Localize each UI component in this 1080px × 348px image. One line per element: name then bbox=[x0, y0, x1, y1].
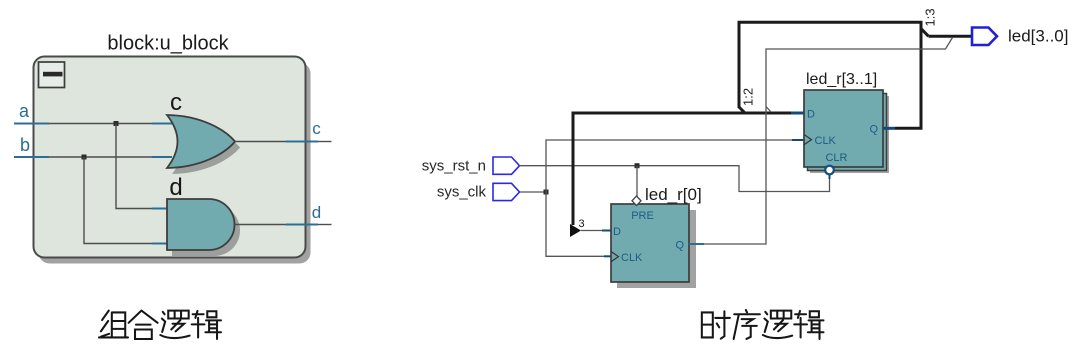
flipflop led_r[3..1] body bbox=[804, 90, 883, 167]
bus horizontal top bbox=[738, 21, 923, 24]
wire d external bbox=[318, 224, 332, 226]
led_r[3..1] D stub bbox=[791, 112, 804, 115]
wire d output bbox=[235, 224, 287, 226]
and-gate d input stub bottom bbox=[152, 243, 168, 245]
char 组 bbox=[99, 311, 128, 338]
wire sys_clk down to led_r[0] CLK bbox=[546, 192, 604, 256]
wire a to and-gate (vertical) bbox=[116, 124, 152, 209]
wire sys_rst_n to PRE bbox=[636, 166, 638, 197]
bus to led port bbox=[929, 35, 973, 38]
CLR stub bbox=[829, 174, 831, 179]
flipflop led_r[3..1] stack bbox=[808, 94, 887, 171]
svg-text:a: a bbox=[19, 101, 30, 121]
svg-text:sys_clk: sys_clk bbox=[437, 184, 487, 201]
svg-text:D: D bbox=[613, 226, 621, 238]
bus vertical x=739 bbox=[738, 22, 741, 108]
port sys_rst_n symbol bbox=[493, 157, 520, 174]
port led[3..0] symbol bbox=[972, 28, 997, 46]
led_r[3..1] Q stub bbox=[883, 127, 895, 130]
led_r[0] CLK stub bbox=[604, 255, 611, 257]
bus vertical x=921 bbox=[920, 22, 923, 128]
svg-text:D: D bbox=[807, 109, 815, 121]
svg-text:Q: Q bbox=[675, 240, 684, 252]
bus tap triangle bbox=[570, 224, 581, 237]
ripper tick Q to bus bbox=[766, 107, 771, 113]
svg-text:1:2: 1:2 bbox=[741, 88, 756, 106]
wire sys_clk bbox=[520, 191, 547, 193]
led_r[0] D stub bbox=[602, 230, 611, 232]
char 序 bbox=[734, 310, 760, 339]
svg-text:c: c bbox=[170, 89, 182, 116]
flipflop led_r[0] body bbox=[611, 204, 689, 282]
flipflop led_r[3..1] shadow bbox=[810, 96, 889, 173]
hierarchy icon bbox=[39, 62, 65, 88]
wire sys_rst_n bbox=[520, 166, 830, 192]
PRE diamond bbox=[632, 196, 641, 206]
wire b bbox=[49, 156, 152, 158]
and-gate d input stub top bbox=[152, 208, 168, 210]
svg-text:d: d bbox=[312, 203, 321, 222]
flipflop led_r[0] shadow bbox=[617, 210, 696, 288]
svg-text:1:3: 1:3 bbox=[923, 8, 938, 26]
svg-text:block:u_block: block:u_block bbox=[107, 33, 229, 55]
svg-text:led_r[0]: led_r[0] bbox=[645, 185, 702, 204]
wire b to and-gate (vertical) bbox=[84, 157, 152, 244]
junction sys_clk bbox=[544, 190, 549, 195]
wire c external bbox=[318, 141, 332, 143]
port c stub bbox=[286, 141, 318, 143]
or-gate c bbox=[167, 115, 235, 168]
char 合 bbox=[129, 311, 158, 339]
port sys_clk symbol bbox=[493, 183, 520, 200]
junction on wire b bbox=[82, 155, 87, 160]
svg-text:sys_rst_n: sys_rst_n bbox=[422, 158, 486, 175]
svg-text:d: d bbox=[169, 174, 182, 201]
char 辑 (2) bbox=[794, 311, 823, 339]
svg-text:CLR: CLR bbox=[825, 152, 847, 164]
char 时 bbox=[702, 311, 730, 338]
caption 时序逻辑 bbox=[702, 310, 824, 339]
port b stub bbox=[14, 156, 49, 158]
wire sys_clk up to led_r[3..1] CLK bbox=[546, 140, 792, 192]
block u_block body bbox=[34, 57, 306, 258]
CLR bubble bbox=[825, 166, 834, 175]
svg-text:c: c bbox=[312, 119, 321, 138]
wire c output bbox=[235, 141, 286, 143]
ripper 1:3 diagonal bbox=[921, 29, 929, 37]
svg-text:3: 3 bbox=[579, 218, 585, 230]
port d stub bbox=[286, 224, 318, 226]
led_r[3..1] CLK stub bbox=[792, 139, 804, 141]
and-gate d bbox=[167, 199, 235, 250]
char 逻 bbox=[160, 311, 189, 338]
svg-text:Q: Q bbox=[869, 124, 878, 136]
bus vertical to led_r[0] D bbox=[572, 113, 575, 225]
block u_block shadow bbox=[39, 63, 311, 264]
svg-text:CLK: CLK bbox=[621, 252, 643, 264]
char 逻 (2) bbox=[763, 311, 792, 338]
or-gate c shadow bbox=[172, 121, 240, 174]
svg-text:led_r[3..1]: led_r[3..1] bbox=[806, 71, 877, 88]
and-gate d shadow bbox=[172, 205, 240, 256]
svg-text:CLK: CLK bbox=[815, 135, 837, 147]
or-gate c input stub a bbox=[152, 123, 172, 125]
bus Q to corner bbox=[895, 127, 923, 130]
port a stub bbox=[14, 123, 49, 125]
clock triangle led_r[3..1] bbox=[804, 135, 812, 145]
wire a bbox=[49, 123, 152, 125]
or-gate c input stub b bbox=[152, 156, 172, 158]
wire led_r[0] Q bbox=[704, 38, 953, 245]
bus horizontal into led_r[3..1] D bbox=[572, 112, 792, 115]
svg-text:led[3..0]: led[3..0] bbox=[1008, 27, 1069, 46]
ripper 1:2 diagonal bbox=[739, 107, 746, 114]
svg-text:b: b bbox=[20, 135, 30, 155]
led_r[0] Q stub bbox=[689, 243, 704, 245]
wire triangle to D bbox=[581, 230, 602, 232]
char 辑 bbox=[192, 311, 221, 339]
junction sys_rst_n bbox=[635, 163, 640, 168]
junction on wire a bbox=[114, 121, 119, 126]
svg-text:PRE: PRE bbox=[631, 210, 654, 222]
caption 组合逻辑 bbox=[99, 311, 221, 339]
clock triangle led_r[0] bbox=[611, 252, 619, 262]
